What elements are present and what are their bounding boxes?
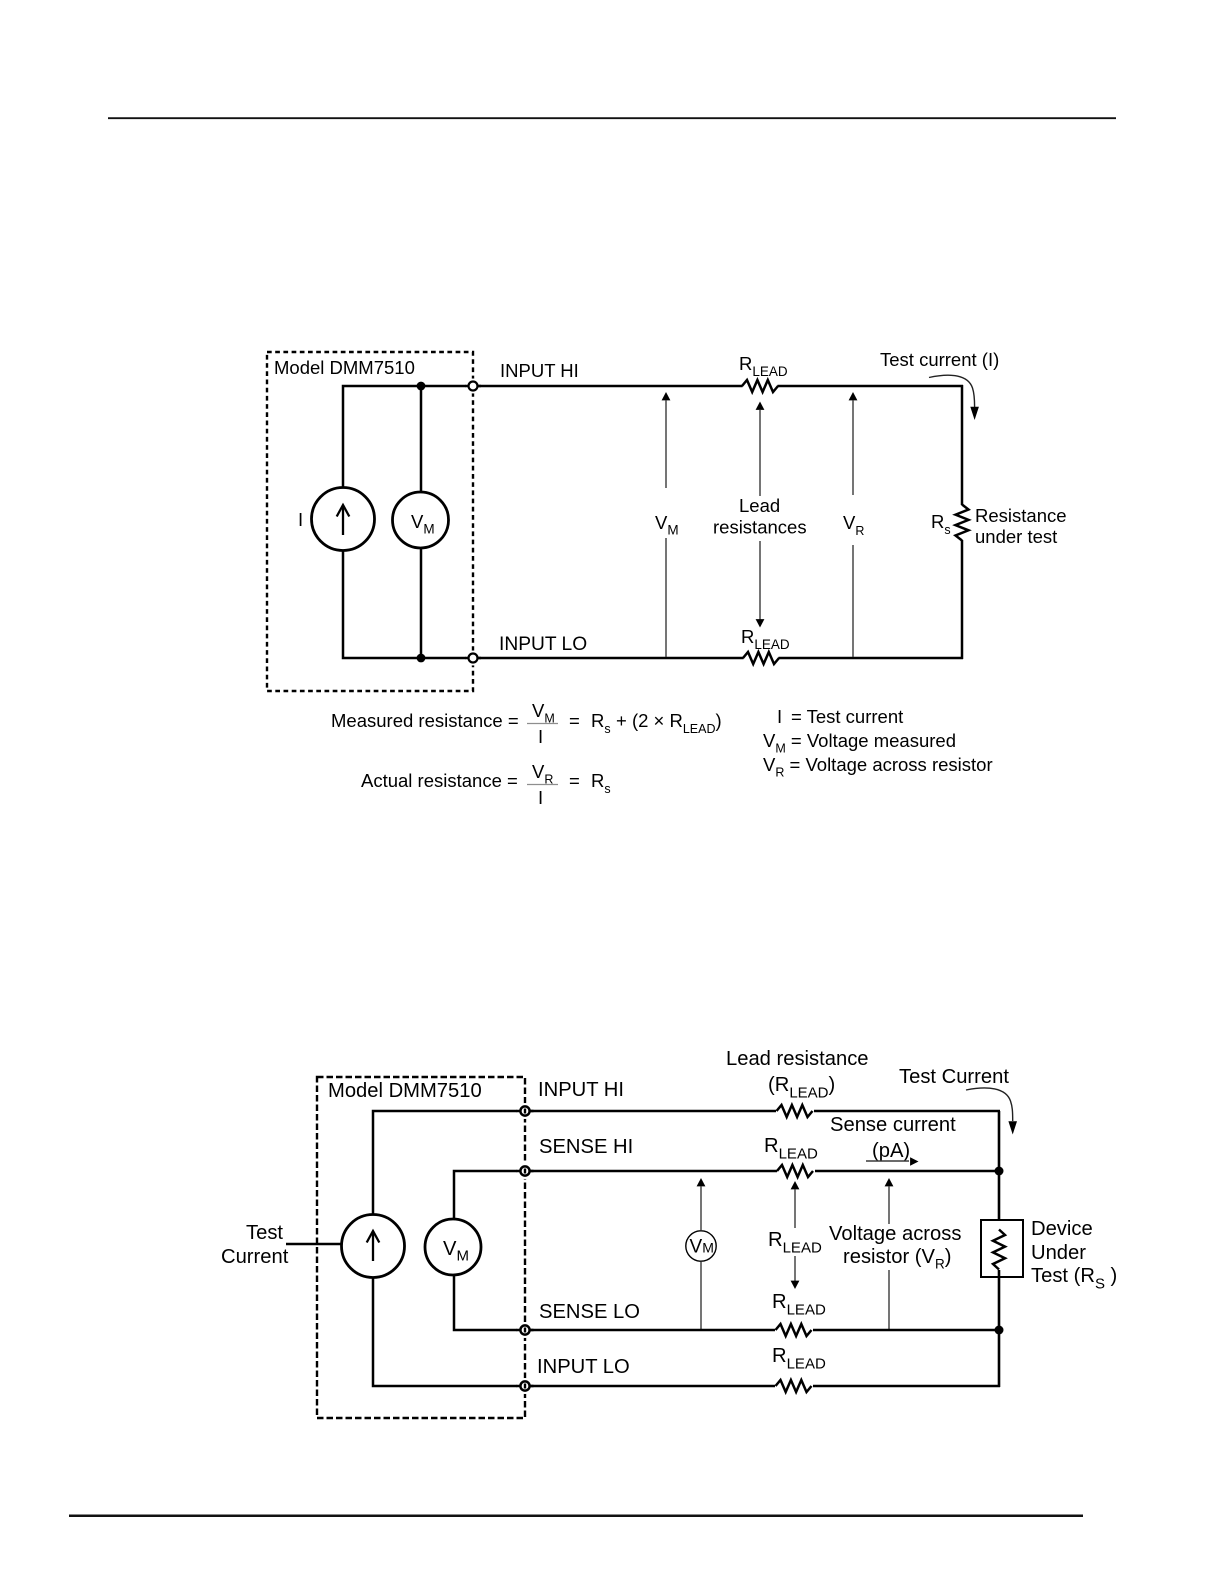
RLEAD sense double arrow upper — [791, 1181, 800, 1189]
wire right vertical upper — [961, 385, 964, 505]
svg-text:Actual resistance =: Actual resistance = — [361, 770, 518, 791]
test current curved arrow — [966, 1088, 1013, 1121]
wire INPUT HI (left of resistor) — [530, 1110, 776, 1113]
resistor RLEAD bottom — [743, 652, 779, 664]
svg-text:=Rs+ (2 × RLEAD): =Rs+ (2 × RLEAD) — [569, 710, 722, 736]
DMM enclosure dashed box — [267, 352, 473, 691]
DMM enclosure dashed box — [317, 1077, 525, 1418]
VM measurement arrow (lower segment) — [665, 538, 667, 657]
wire INPUT HI lead (left of resistor) — [478, 385, 743, 388]
svg-text:VM: VM — [690, 1237, 714, 1258]
svg-text:VR: VR — [532, 761, 553, 787]
junction dot node A — [417, 382, 426, 391]
svg-text:Measured resistance =: Measured resistance = — [331, 710, 519, 731]
svg-text:Current: Current — [221, 1246, 289, 1268]
svg-text:RLEAD: RLEAD — [768, 1229, 822, 1257]
wire: current source bottom to node B — [343, 551, 473, 658]
resistor RLEAD sense hi — [777, 1165, 813, 1177]
wire: voltmeter VM top lead — [420, 386, 423, 492]
svg-text:I= Test current: I= Test current — [777, 706, 903, 727]
wire INPUT LO lead (right of resistor) — [779, 657, 964, 660]
VR measure arrow — [885, 1178, 894, 1186]
resistor RLEAD top — [742, 380, 778, 392]
svg-text:Model DMM7510: Model DMM7510 — [274, 357, 415, 378]
resistor Rs zigzag — [956, 505, 969, 541]
svg-text:RLEAD: RLEAD — [764, 1135, 818, 1163]
svg-text:Rs: Rs — [931, 511, 951, 537]
DUT box — [981, 1220, 1023, 1277]
voltmeter VM circle — [393, 492, 449, 548]
VM measurement arrow (upper segment) — [662, 392, 671, 400]
svg-text:(pA): (pA) — [872, 1140, 910, 1162]
wire: voltmeter VM bottom to SENSE LO — [454, 1274, 525, 1330]
wire SENSE LO (left of resistor) — [530, 1329, 775, 1332]
svg-text:Test Current: Test Current — [899, 1066, 1009, 1088]
terminal INPUT LO — [517, 1378, 533, 1394]
junction dot sense hi — [995, 1167, 1004, 1176]
wire INPUT LO (right of resistor) — [813, 1385, 1000, 1388]
terminal SENSE LO — [517, 1322, 533, 1338]
wire SENSE HI (left of resistor) — [530, 1170, 777, 1173]
voltmeter VM circle — [425, 1219, 481, 1275]
wire: current source top to node A — [343, 386, 473, 488]
VM measure arrow lower — [700, 1262, 702, 1329]
resistor RLEAD input lo — [776, 1380, 812, 1392]
wire: current source bottom to INPUT LO — [373, 1278, 525, 1386]
current source arrow — [342, 505, 344, 535]
sense current arrow under (pA) — [866, 1160, 909, 1162]
resistor RLEAD sense lo — [776, 1324, 812, 1336]
svg-text:I: I — [538, 787, 543, 808]
current source arrow — [372, 1231, 374, 1261]
wire right vertical — [998, 1111, 1001, 1229]
junction dot sense lo — [995, 1326, 1004, 1335]
svg-text:INPUT HI: INPUT HI — [538, 1079, 624, 1101]
svg-text:resistances: resistances — [713, 517, 807, 538]
VM measure circle — [697, 1178, 706, 1186]
svg-text:VR = Voltage across resistor: VR = Voltage across resistor — [763, 754, 993, 780]
svg-text:RLEAD: RLEAD — [772, 1345, 826, 1373]
svg-text:RLEAD: RLEAD — [772, 1291, 826, 1319]
svg-text:Lead: Lead — [739, 495, 780, 516]
resistor RLEAD input hi — [777, 1105, 813, 1117]
wire right vertical lower — [998, 1270, 1001, 1387]
wire: voltmeter VM top to SENSE HI — [454, 1171, 525, 1220]
current source I circle — [312, 488, 375, 551]
svg-text:Lead resistance: Lead resistance — [726, 1048, 869, 1070]
svg-text:Test (RS ): Test (RS ) — [1031, 1265, 1117, 1293]
current source circle — [342, 1215, 405, 1278]
svg-text:INPUT LO: INPUT LO — [499, 634, 587, 655]
wire SENSE HI (right of resistor) — [815, 1170, 1000, 1173]
terminal SENSE HI — [517, 1163, 533, 1179]
page top rule — [108, 117, 1116, 119]
wire INPUT HI lead (right of resistor) — [778, 385, 964, 388]
terminal INPUT HI — [517, 1103, 533, 1119]
svg-text:VM = Voltage measured: VM = Voltage measured — [763, 730, 956, 756]
wire INPUT LO (left of resistor) — [530, 1385, 775, 1388]
wire INPUT HI (right of resistor) — [814, 1110, 1000, 1113]
svg-text:I: I — [538, 726, 543, 747]
RLEAD sense double arrow lower — [794, 1256, 796, 1281]
VR measurement arrow (lower segment) — [852, 545, 854, 657]
wire INPUT LO lead (left of resistor) — [478, 657, 744, 660]
svg-text:VR: VR — [843, 512, 864, 538]
svg-text:SENSE HI: SENSE HI — [539, 1136, 633, 1158]
svg-text:(RLEAD): (RLEAD) — [768, 1074, 835, 1102]
svg-text:INPUT HI: INPUT HI — [500, 360, 579, 381]
terminal INPUT LO — [466, 651, 481, 666]
wire: current source top to INPUT HI — [373, 1111, 525, 1215]
svg-text:under test: under test — [975, 526, 1057, 547]
svg-text:INPUT LO: INPUT LO — [537, 1356, 630, 1378]
svg-text:Device: Device — [1031, 1218, 1093, 1240]
lead resistances double arrow (upper) — [756, 402, 765, 410]
svg-text:resistor (VR): resistor (VR) — [843, 1246, 951, 1272]
wire test current lead-in — [286, 1243, 342, 1245]
svg-text:RLEAD: RLEAD — [739, 353, 788, 379]
svg-text:Test current (I): Test current (I) — [880, 349, 999, 370]
VR measurement arrow (upper segment) — [849, 392, 858, 400]
wire right vertical lower — [961, 540, 964, 659]
svg-text:Sense current: Sense current — [830, 1114, 956, 1136]
svg-text:Voltage across: Voltage across — [829, 1223, 961, 1245]
terminal INPUT HI — [466, 379, 481, 394]
lead resistances double arrow (lower) — [759, 541, 761, 620]
svg-text:VM: VM — [532, 700, 555, 726]
svg-text:I: I — [298, 509, 303, 530]
wire: voltmeter VM bottom lead — [420, 548, 423, 658]
svg-text:Model DMM7510: Model DMM7510 — [328, 1080, 482, 1102]
resistor RS zigzag in DUT — [993, 1230, 1005, 1270]
svg-text:Test: Test — [246, 1222, 283, 1244]
svg-text:SENSE LO: SENSE LO — [539, 1301, 640, 1323]
page bottom rule — [69, 1514, 1083, 1517]
wire SENSE LO (right of resistor) — [813, 1329, 1000, 1332]
svg-text:Under: Under — [1031, 1242, 1086, 1264]
svg-text:Resistance: Resistance — [975, 505, 1067, 526]
junction dot node B — [417, 654, 426, 663]
svg-text:=Rs: =Rs — [569, 770, 611, 796]
test current curved arrow — [929, 375, 975, 407]
svg-text:VM: VM — [655, 512, 679, 538]
svg-text:RLEAD: RLEAD — [741, 626, 790, 652]
